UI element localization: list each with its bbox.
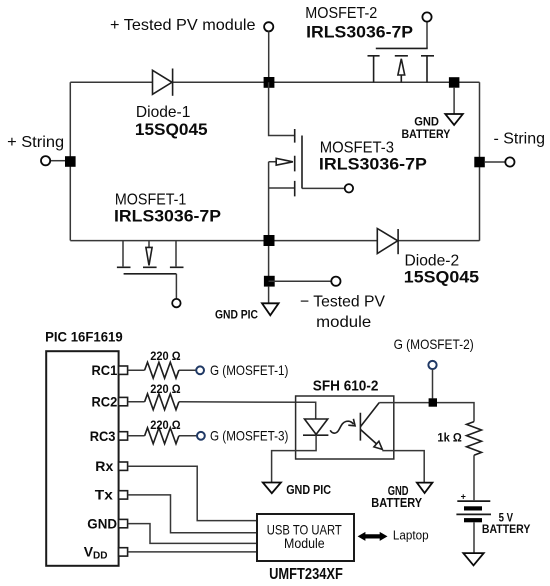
svg-text:+ String: + String bbox=[7, 134, 64, 151]
svg-text:IRLS3036-7P: IRLS3036-7P bbox=[306, 23, 413, 42]
label G (MOSFET-3) bbox=[210, 428, 288, 444]
svg-text:220 Ω: 220 Ω bbox=[150, 349, 181, 363]
svg-text:Rx: Rx bbox=[95, 458, 113, 474]
wire phototransistor emitter to GND BATTERY bbox=[382, 451, 424, 483]
label - Tested PV bbox=[300, 294, 385, 311]
label MOSFET-2 bbox=[305, 5, 377, 22]
label GND PIC (bottom) bbox=[286, 482, 331, 497]
wire battery to ground bbox=[473, 522, 475, 553]
wire Rx to USB module bbox=[128, 466, 257, 520]
label + String bbox=[7, 134, 64, 151]
label 220 ohm (RC2) bbox=[150, 382, 181, 396]
label - String bbox=[494, 130, 546, 147]
svg-text:Laptop: Laptop bbox=[393, 528, 429, 543]
resistor R2 220 ohm bbox=[145, 394, 179, 410]
wire RC2 to opto LED anode bbox=[128, 402, 316, 419]
node +PV junction on top rail bbox=[264, 77, 275, 88]
optocoupler U2 SFH 610-2 package bbox=[296, 396, 394, 459]
svg-text:UMFT234XF: UMFT234XF bbox=[269, 566, 343, 583]
label SFH 610-2 bbox=[313, 377, 379, 394]
label BATTERY (top) bbox=[402, 127, 451, 141]
label 220 ohm (RC3) bbox=[150, 418, 181, 432]
label GND pin bbox=[87, 515, 117, 531]
terminal gate MOSFET-2 bbox=[422, 12, 431, 21]
wire + Tested PV module drop bbox=[268, 31, 270, 82]
svg-text:+ Tested PV module: + Tested PV module bbox=[110, 17, 256, 34]
terminal - Tested PV module bbox=[331, 277, 340, 286]
svg-text:15SQ045: 15SQ045 bbox=[404, 268, 479, 287]
wire phototransistor collector to 1k resistor bbox=[379, 403, 474, 422]
diode D2 Diode-2 15SQ045 bbox=[377, 229, 398, 255]
label RC2 bbox=[92, 393, 118, 409]
svg-text:IRLS3036-7P: IRLS3036-7P bbox=[319, 155, 427, 174]
label 5 V bbox=[499, 510, 513, 524]
pin RC3 stub bbox=[119, 432, 128, 440]
terminal - String bbox=[505, 157, 514, 166]
pin RC1 stub bbox=[119, 366, 128, 374]
label RC3 bbox=[90, 428, 116, 444]
svg-text:15SQ045: 15SQ045 bbox=[135, 120, 208, 139]
label Tx bbox=[95, 487, 113, 503]
svg-text:Tx: Tx bbox=[95, 487, 113, 503]
svg-text:module: module bbox=[316, 314, 371, 331]
label UMFT234XF bbox=[269, 566, 343, 583]
label IRLS3036-7P (M1) bbox=[114, 207, 221, 226]
label Module bbox=[284, 535, 325, 551]
label PIC 16F1619 bbox=[45, 329, 123, 345]
wire left rail from + String up to Diode-1 and down to MOSFET-1 rail bbox=[69, 82, 71, 240]
pin GND stub bbox=[119, 519, 128, 527]
LED inside optocoupler bbox=[303, 419, 328, 435]
module U3 USB TO UART box bbox=[257, 514, 354, 561]
wire 1k resistor to battery bbox=[473, 455, 475, 500]
label G (MOSFET-1) bbox=[210, 362, 288, 378]
label VDD pin bbox=[84, 544, 108, 562]
svg-text:RC3: RC3 bbox=[90, 428, 116, 444]
pin Tx stub bbox=[119, 491, 128, 499]
svg-text:IRLS3036-7P: IRLS3036-7P bbox=[114, 207, 221, 226]
svg-text:SFH 610-2: SFH 610-2 bbox=[313, 377, 379, 394]
resistor R4 1k ohm vertical bbox=[467, 422, 482, 456]
svg-text:220 Ω: 220 Ω bbox=[150, 418, 181, 432]
svg-text:Module: Module bbox=[284, 535, 325, 551]
transistor Q1 MOSFET-1 symbol bbox=[117, 241, 184, 299]
label module (second line) bbox=[316, 314, 371, 331]
pin RC2 stub bbox=[119, 397, 128, 405]
node + String junction bbox=[65, 156, 76, 167]
wire LED cathode to GND PIC bbox=[272, 435, 317, 482]
svg-text:G (MOSFET-3): G (MOSFET-3) bbox=[210, 428, 288, 444]
svg-text:− Tested PV: − Tested PV bbox=[300, 294, 385, 311]
phototransistor inside optocoupler bbox=[360, 403, 382, 450]
label GND (top battery) bbox=[414, 114, 439, 128]
svg-text:G (MOSFET-2): G (MOSFET-2) bbox=[394, 336, 474, 352]
wire VDD to USB module bbox=[128, 551, 257, 553]
svg-text:220 Ω: 220 Ω bbox=[150, 382, 181, 396]
label 1k ohm bbox=[437, 431, 462, 445]
node mid rail junction bbox=[264, 235, 275, 246]
svg-text:BATTERY: BATTERY bbox=[402, 127, 451, 141]
svg-text:PIC 16F1619: PIC 16F1619 bbox=[45, 329, 123, 345]
label Diode-1 bbox=[136, 104, 191, 121]
wire RC3 to resistor bbox=[128, 435, 197, 437]
wire - String terminal lead bbox=[485, 161, 506, 163]
svg-text:+: + bbox=[461, 491, 466, 501]
svg-text:RC2: RC2 bbox=[92, 393, 118, 409]
wire node to -PV node bbox=[268, 246, 270, 281]
label + Tested PV module bbox=[110, 17, 256, 34]
resistor R1 220 ohm bbox=[145, 362, 179, 378]
wire - Tested PV terminal lead bbox=[269, 280, 332, 282]
pin VDD stub bbox=[119, 548, 128, 556]
wire G (MOSFET-2) drop to node bbox=[432, 369, 434, 398]
wire GND BATTERY drop bbox=[453, 88, 455, 114]
svg-text:Diode-1: Diode-1 bbox=[136, 104, 191, 121]
node collector junction bbox=[429, 398, 437, 406]
svg-text:GND PIC: GND PIC bbox=[215, 308, 258, 322]
svg-text:MOSFET-2: MOSFET-2 bbox=[305, 5, 377, 22]
coupling arrow squiggle bbox=[330, 419, 355, 433]
node - String junction bbox=[474, 157, 485, 168]
svg-text:GND PIC: GND PIC bbox=[286, 482, 331, 497]
wire bottom rail of top circuit bbox=[70, 240, 479, 242]
ground GND PIC (bottom) bbox=[263, 483, 281, 494]
transistor Q2 MOSFET-2 symbol bbox=[368, 21, 435, 82]
label MOSFET-3 bbox=[320, 139, 394, 156]
wire GND to USB module bbox=[128, 524, 257, 544]
terminal G (MOSFET-1) bbox=[196, 366, 204, 374]
resistor R3 220 ohm bbox=[145, 428, 179, 444]
label BATTERY (5V) bbox=[482, 522, 531, 536]
ground GND PIC (top) bbox=[262, 303, 279, 315]
label MOSFET-1 bbox=[115, 191, 187, 208]
label GND (bottom battery) bbox=[388, 483, 409, 498]
node - Tested PV junction bbox=[264, 276, 275, 287]
ground GND BATTERY (top) bbox=[445, 114, 463, 125]
label IRLS3036-7P (M3) bbox=[319, 155, 427, 174]
wire Tx to USB module bbox=[128, 495, 257, 533]
arrow laptop double-headed bbox=[358, 532, 388, 541]
wire GND PIC drop (top) bbox=[268, 287, 270, 304]
battery plus sign bbox=[461, 491, 466, 501]
svg-text:GND: GND bbox=[87, 515, 117, 531]
wire RC1 to resistor bbox=[128, 369, 196, 371]
wire top rail (+ node row at y=82) bbox=[70, 81, 479, 83]
diode D1 Diode-1 15SQ045 bbox=[153, 69, 173, 96]
svg-text:RC1: RC1 bbox=[92, 362, 118, 378]
pin Rx stub bbox=[119, 462, 128, 470]
label USB TO UART bbox=[267, 521, 342, 537]
label BATTERY (bottom gnd) bbox=[371, 495, 422, 510]
node MOSFET-2 source junction bbox=[449, 77, 460, 88]
terminal G (MOSFET-3) bbox=[197, 432, 205, 440]
label 15SQ045 (D2) bbox=[404, 268, 479, 287]
label RC1 bbox=[92, 362, 118, 378]
label 15SQ045 (D1) bbox=[135, 120, 208, 139]
svg-text:- String: - String bbox=[494, 130, 546, 147]
svg-text:BATTERY: BATTERY bbox=[371, 495, 422, 510]
label Laptop bbox=[393, 528, 429, 543]
transistor Q3 MOSFET-3 symbol bbox=[269, 82, 345, 240]
terminal gate MOSFET-3 bbox=[345, 184, 353, 192]
wire right rail (- String side) bbox=[479, 82, 481, 241]
svg-text:1k Ω: 1k Ω bbox=[437, 431, 462, 445]
label IRLS3036-7P (M2) bbox=[306, 23, 413, 42]
svg-text:BATTERY: BATTERY bbox=[482, 522, 531, 536]
ground battery negative bbox=[463, 553, 483, 565]
svg-text:G (MOSFET-1): G (MOSFET-1) bbox=[210, 362, 288, 378]
terminal + Tested PV module bbox=[264, 22, 273, 31]
label 220 ohm (RC1) bbox=[150, 349, 181, 363]
terminal G (MOSFET-2) bbox=[428, 361, 436, 369]
label G (MOSFET-2) bbox=[394, 336, 474, 352]
battery BT1 5V symbol bbox=[456, 501, 491, 522]
label Diode-2 bbox=[405, 253, 460, 270]
terminal gate MOSFET-1 bbox=[172, 299, 180, 307]
label Rx bbox=[95, 458, 113, 474]
wire + String terminal lead bbox=[50, 160, 65, 162]
IC U1 PIC 16F1619 body bbox=[46, 351, 118, 566]
label GND PIC (top) bbox=[215, 308, 258, 322]
terminal + String bbox=[41, 156, 50, 165]
ground GND BATTERY (bottom) bbox=[417, 483, 433, 493]
